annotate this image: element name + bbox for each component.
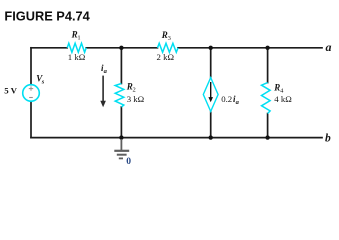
svg-text:4 kΩ: 4 kΩ bbox=[274, 94, 292, 104]
svg-text:2: 2 bbox=[133, 87, 136, 94]
svg-text:2 kΩ: 2 kΩ bbox=[157, 52, 175, 62]
svg-text:1 kΩ: 1 kΩ bbox=[68, 52, 86, 62]
svg-text:a: a bbox=[236, 99, 240, 106]
svg-text:5 V: 5 V bbox=[4, 86, 17, 96]
svg-text:b: b bbox=[325, 132, 331, 144]
svg-text:3: 3 bbox=[168, 35, 171, 42]
svg-text:0: 0 bbox=[126, 156, 131, 166]
svg-text:a: a bbox=[104, 68, 108, 75]
svg-text:s: s bbox=[41, 78, 45, 85]
svg-text:FIGURE P4.74: FIGURE P4.74 bbox=[4, 8, 90, 23]
svg-text:1: 1 bbox=[77, 35, 80, 42]
svg-text:0.2: 0.2 bbox=[221, 94, 232, 104]
svg-text:3 kΩ: 3 kΩ bbox=[127, 94, 145, 104]
svg-text:a: a bbox=[326, 40, 332, 54]
